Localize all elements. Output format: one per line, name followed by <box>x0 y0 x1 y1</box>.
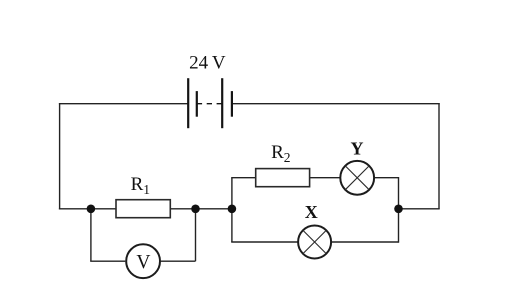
wire: voltmeter branch bottom-right <box>161 260 196 262</box>
svg-text:R2: R2 <box>271 142 290 165</box>
wire: main middle, left corner to resistor R1 <box>59 208 116 210</box>
wire: lamp X to right vertical <box>332 241 399 243</box>
wire: bottom branch, node to lamp X <box>231 241 297 243</box>
lamp X <box>298 226 331 259</box>
resistor R2 <box>256 169 310 187</box>
resistor R1 <box>116 200 170 218</box>
wire: parallel section right vertical <box>398 177 400 243</box>
wire: voltmeter branch left vertical <box>90 209 92 261</box>
svg-text:V: V <box>136 252 150 273</box>
node: junction right of R1 <box>191 205 200 214</box>
wire: left vertical side <box>59 103 61 210</box>
wire: parallel section left vertical <box>231 178 233 242</box>
wire: lamp Y to right vertical <box>375 177 399 179</box>
wire: resistor R1 to parallel-section input node <box>170 208 232 210</box>
svg-text:Y: Y <box>351 138 364 158</box>
wire: resistor R2 to lamp Y <box>310 177 340 179</box>
svg-text:R1: R1 <box>131 174 150 197</box>
wire: top-left horizontal (left corner to battery) <box>59 103 188 105</box>
wire: voltmeter branch bottom-left <box>90 260 125 262</box>
wire: parallel-section output node to right side <box>399 208 440 210</box>
voltmeter V <box>126 244 160 278</box>
wire: top-right horizontal (battery to right corner) <box>232 103 440 105</box>
node: parallel-section output <box>394 205 403 214</box>
wire: right vertical side <box>438 103 440 209</box>
node: junction left of R1 <box>87 205 96 214</box>
wire: top branch, node to resistor R2 <box>231 177 256 179</box>
battery (two cells with dashed omitted-cells line) <box>188 78 232 128</box>
lamp Y <box>340 161 374 195</box>
wire: voltmeter branch right vertical <box>195 209 197 261</box>
svg-text:X: X <box>305 202 318 222</box>
node: parallel-section input <box>228 205 237 214</box>
svg-text:24 V: 24 V <box>189 53 226 74</box>
